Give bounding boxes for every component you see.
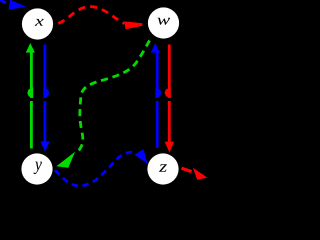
node z — [147, 153, 178, 184]
wire blue dashed edge y->z (bottom curve) — [54, 149, 148, 186]
wire red solid edge w->z (right vertical, down) — [165, 45, 175, 153]
wire red dashed edge x->w (top curve) — [55, 7, 142, 30]
node x — [22, 8, 53, 39]
wire green solid edge y->x (left vertical, up) — [26, 43, 35, 149]
wire blue solid edge z->w (right vertical, up) — [151, 43, 162, 148]
wire blue dashed arrow entering x from top-left — [0, 0, 26, 10]
node w — [148, 7, 179, 38]
wire red dashed arrow leaving z to bottom-right — [182, 168, 208, 180]
node y — [21, 153, 52, 184]
wire blue solid edge x->y (left vertical, down) — [40, 45, 50, 152]
wire green dashed edge w->y (middle S curve) — [56, 37, 151, 168]
